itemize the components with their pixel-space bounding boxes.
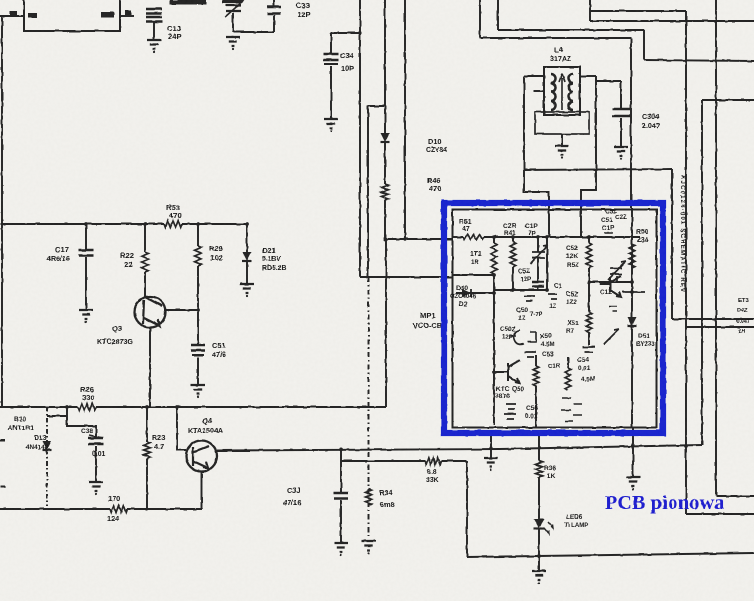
capacitor C38 tilted top plate (89, 435, 103, 438)
wire stub dash net to C38 net (47, 415, 67, 417)
wire C1J to ground (153, 22, 155, 40)
wire bottom bus y509 left (0, 508, 110, 510)
resistor R27 (110, 506, 127, 513)
wire module rail y275 (452, 274, 494, 276)
wire web stub y327 (686, 326, 754, 328)
wire module v x589 low (588, 268, 590, 282)
wire C51 to ground (197, 357, 199, 385)
wire C33 bottom (273, 15, 275, 32)
wire web v x716 (715, 0, 717, 496)
transistor Q3 internals (143, 297, 162, 326)
ground below module right (626, 477, 640, 486)
transistor Q3 (135, 297, 166, 328)
pin blob XIN inside U1 (28, 13, 37, 18)
module cap C53 under link (524, 296, 535, 301)
wire R29 top (197, 224, 199, 246)
wire web v x480 (479, 0, 481, 38)
wire module v x494 (493, 237, 495, 243)
wire web stub y319 (672, 318, 754, 320)
node module x494 y293 (492, 291, 496, 295)
LED LED6 arrows (544, 522, 553, 534)
wire ground stem below module x491 (490, 436, 492, 458)
wire module diode row y293 (456, 292, 494, 294)
wire C38 to ground (95, 446, 97, 482)
ground under D21 (240, 284, 254, 293)
capacitor C38 plates (89, 438, 104, 444)
wire stub x368 to x385 (368, 105, 385, 107)
wire module v x513 lower (512, 267, 514, 290)
ground under C304 (614, 147, 628, 156)
wire web v x631 long (630, 38, 632, 208)
wire web h y11 (590, 10, 686, 12)
resistor R49 coil (586, 243, 592, 268)
wire web h y61 (644, 60, 754, 61)
wire D21 to ground (246, 261, 248, 284)
wire vertical net D x368 (367, 106, 369, 277)
node R29 on bus (196, 222, 200, 226)
wire input to IC U1 left pin (0, 15, 24, 17)
node module x513 y290 (511, 288, 515, 292)
node module x589 y237 (587, 235, 591, 239)
wire module v x494 lower (493, 274, 495, 425)
wire bottom net y556 (467, 553, 754, 557)
wire C304 bottom (620, 118, 622, 147)
resistor R56 (565, 368, 571, 390)
resistor R53 (164, 221, 182, 228)
wire dash-dot zener net lower (46, 450, 48, 506)
wire dash-dot net x368 lower (368, 277, 370, 536)
capacitor C1J lower plates (146, 17, 162, 22)
module cap marks mid (524, 352, 536, 357)
ground under LED (532, 571, 546, 580)
node module x632 y282 (630, 280, 634, 284)
wire loop top left (524, 75, 544, 77)
node branch y461 top (339, 448, 343, 452)
wire R22 top (144, 224, 146, 252)
trimmer capacitor CT51 in module (530, 245, 548, 264)
diode D10 (381, 133, 390, 142)
wire LED net bottom (538, 529, 540, 571)
wire LED net top (538, 436, 540, 461)
wire branch y461 (341, 460, 425, 462)
capacitor C1J upper plates (146, 9, 162, 14)
left edge stub lower (0, 486, 5, 488)
IC U1 box (top cut off by image edge) (24, 0, 120, 31)
transistor Q4 internals (193, 446, 209, 468)
wire Q4 base branch (177, 407, 186, 450)
wire ground stem below module x633 (632, 427, 634, 477)
node bus x633 (631, 444, 634, 447)
capacitor C51 curved plate (192, 354, 204, 356)
transformer L4 box (544, 67, 580, 115)
wire module v x589 foot (588, 332, 590, 345)
node x405 on y239 wire (403, 237, 406, 240)
wire web corner y514 (686, 513, 754, 515)
module transistor Q50 cluster (494, 360, 520, 383)
ground under C17 (79, 310, 93, 319)
ground under C1J (147, 40, 161, 49)
wire web v x498 (497, 0, 499, 30)
module tick marks row b (609, 306, 617, 311)
wire left border net (1, 17, 3, 407)
module trimmer CT52 arrow (604, 329, 619, 344)
wire bias bus y224 left (0, 223, 164, 225)
wire web h y21 (590, 20, 754, 22)
node Q4 base branch (175, 405, 179, 409)
transistor Q4 (186, 441, 217, 472)
node module rail x494 (492, 235, 496, 239)
wire C34 to ground (330, 66, 332, 119)
node module x494 y372 (492, 370, 496, 374)
wire Q4 emitter down (201, 472, 203, 510)
capacitor C52 in module (532, 282, 544, 287)
ground under C38 (89, 482, 103, 491)
wire trimmer to node (232, 13, 234, 32)
wire R23 upper (146, 407, 148, 442)
wire bus y407 right (96, 406, 386, 408)
module bottom marks right (561, 398, 582, 421)
resistor R50 on x632 (629, 244, 635, 268)
module top tick marks (604, 233, 613, 237)
wire bias bus y224 right (182, 223, 248, 225)
ground under C3J (334, 543, 348, 552)
module junction bar y292 (622, 291, 645, 293)
wire C17 top (85, 224, 87, 250)
wire x386 riser (385, 239, 387, 407)
ground under C51 (191, 385, 205, 394)
ground under C34 (324, 119, 338, 128)
wire module v x589 mid2 (588, 282, 590, 312)
wire module v x547 (546, 237, 548, 290)
capacitor C304 plates (612, 109, 630, 116)
ground below module left (484, 458, 498, 467)
capacitor C34 plates (324, 54, 339, 60)
wire module v x589 (588, 237, 590, 243)
node module x547 y237 (545, 235, 549, 239)
blue highlight box PCB pionowa (444, 203, 663, 433)
wire D10 to R46 (384, 142, 386, 184)
diode D51 in module (628, 317, 637, 326)
wire entry x549 into module (548, 214, 550, 237)
wire module v x536 low (535, 355, 537, 366)
resistor R23 (144, 442, 151, 458)
node LED y556 (537, 554, 541, 558)
pin blob 2 right of U1 (125, 10, 132, 15)
ground under transformer (555, 146, 569, 155)
capacitor C51 plates (191, 345, 205, 351)
wire branch y461 right (441, 460, 467, 462)
wire module rail y237 mid (484, 236, 640, 238)
ground under dashed net x368 (362, 541, 376, 550)
resistor R22 (142, 252, 149, 272)
left edge stub upper (0, 439, 5, 441)
node module x513 y237 (511, 235, 515, 239)
wire web h y30 (498, 29, 644, 31)
node R23 top (145, 405, 149, 409)
module crystal X50 loop (510, 330, 536, 344)
node C17 on bus (84, 222, 88, 226)
wire web v x590 (589, 0, 591, 21)
wire C34 stub to vertical bus (331, 32, 360, 34)
wire module v x513 (512, 237, 514, 242)
node module x632 y292 (630, 290, 634, 294)
wire module v x568 stub (567, 357, 569, 368)
wire long bus y450 (217, 445, 702, 451)
node Q3 emitter R29 (196, 308, 200, 312)
wire module v x538 low (537, 287, 539, 290)
resistor R46 (382, 184, 389, 200)
capacitor C33 plates (267, 7, 281, 14)
module cap marks x589 foot (583, 347, 595, 352)
wire web v x686 long (685, 11, 687, 514)
node bus x491 (489, 446, 492, 449)
wire C38 branch (67, 407, 96, 438)
wire web v x702 (701, 100, 703, 445)
capacitor C17 plates (79, 250, 94, 256)
wire C33 top stub (273, 0, 275, 7)
wire vertical net C x405 (404, 0, 406, 239)
wire vertical net A x360 (359, 0, 361, 277)
node bus x539 (538, 446, 541, 449)
node module x494 y275 (492, 273, 496, 277)
resistor R26 (78, 404, 96, 411)
wire rectangle below transformer (535, 112, 589, 134)
resistor R52 coil (491, 243, 497, 274)
resistor R34 on dashed net (366, 489, 372, 505)
resistor R53b coil (510, 242, 516, 267)
wire bottom bus y509 right (127, 508, 202, 510)
wire module link y282 (589, 281, 632, 283)
transformer L4 left winding (551, 74, 556, 110)
module stub q51 base (616, 276, 618, 282)
wire module v x538 mid (537, 258, 539, 282)
wire from U1 right pin (120, 15, 134, 17)
resistor R36 (536, 461, 543, 477)
wire R29 to emitter node (197, 266, 199, 344)
node module x589 y282 (587, 280, 591, 284)
wire vertical net B x385 upper (384, 0, 386, 133)
node bus meets x686 (684, 444, 688, 448)
capacitor C3J plates (334, 493, 348, 499)
wire loop left x524 (524, 76, 549, 214)
wire node x385 into VCO box (385, 238, 452, 240)
wire Q3 collector down (149, 327, 151, 407)
crystal X1 label blob at top edge (170, 0, 206, 5)
zener diode D21 (243, 252, 252, 261)
wire loop top right (580, 75, 596, 77)
transformer L4 core arrow (559, 74, 565, 110)
wire R46 to node x385 (384, 200, 386, 239)
wire module rail y237 (452, 236, 463, 238)
wire web corner y496 (716, 495, 754, 497)
wire entry x581 into module (580, 214, 582, 237)
node C38 branch (65, 405, 69, 409)
resistor R55 (533, 366, 539, 386)
module tick marks row a (548, 294, 557, 299)
node module x547 y290 (545, 288, 549, 292)
wire R23 lower (146, 458, 148, 509)
wire stub into transformer (534, 90, 544, 92)
wire transformer ground stem (561, 134, 563, 146)
wire Q4 collector right (217, 450, 250, 452)
wire D21 top (246, 224, 248, 252)
wire C17 to ground (85, 257, 87, 310)
pin blob 1 left of U1 (10, 11, 17, 16)
trimmer CT1 top blob (222, 0, 242, 3)
LED LED6 (534, 519, 545, 528)
trimmer capacitor CT1 top plates (226, 5, 241, 11)
wire LED net mid (538, 477, 540, 519)
node C34 stub (358, 31, 361, 34)
module bottom cap marks (504, 404, 516, 419)
trimmer CT1 arrow (225, 0, 244, 17)
wire net A corner into VCO box (360, 276, 452, 278)
wire module v x632 (631, 208, 633, 427)
wire loop right x596 (581, 76, 596, 214)
wire Q3 emitter to R29 net (164, 309, 198, 311)
resistor R51 (463, 234, 484, 239)
wire module link y290 (494, 289, 547, 291)
transformer L4 right winding (569, 74, 574, 110)
resistor R57 coil (586, 312, 592, 332)
wire dash-dot zener net upper (46, 407, 48, 441)
wire web h y101 (702, 99, 754, 101)
wire module v x538 (537, 237, 539, 252)
node x385 to VCO wire (383, 237, 387, 241)
resistor R29 (195, 246, 202, 266)
wire web v x672 (671, 169, 673, 319)
wire web h y38 (480, 37, 631, 39)
module trimmer CT50 (608, 261, 626, 280)
node D21 on bus (245, 222, 249, 226)
wire C3J to ground (340, 500, 342, 543)
wire loop bottom y170 (524, 169, 672, 170)
pin blob XOUT inside U1 (101, 12, 114, 18)
ground under trimmer (226, 37, 240, 46)
module transistor Q51 cluster (600, 276, 621, 297)
capacitor C34 curved plate hint (324, 63, 338, 65)
wire bus y407 left (0, 406, 78, 408)
wire trimmer node to C33 (233, 31, 274, 33)
diode D50 in module (462, 289, 471, 297)
VCO module box (453, 210, 657, 428)
node R22 on bus (143, 222, 147, 226)
wire R22 to Q3 base (144, 272, 146, 297)
wire C34 top (330, 33, 332, 53)
node module x538 y237 (536, 235, 540, 239)
resistor R30 (425, 458, 441, 465)
wire web v x644 (643, 30, 645, 60)
wire module v x536 foot (535, 386, 537, 427)
zener diode D13 (43, 441, 52, 450)
wire C304 top (596, 81, 621, 109)
wire branch right drop x467 (466, 461, 468, 557)
wire branch drop x341 (340, 449, 342, 492)
